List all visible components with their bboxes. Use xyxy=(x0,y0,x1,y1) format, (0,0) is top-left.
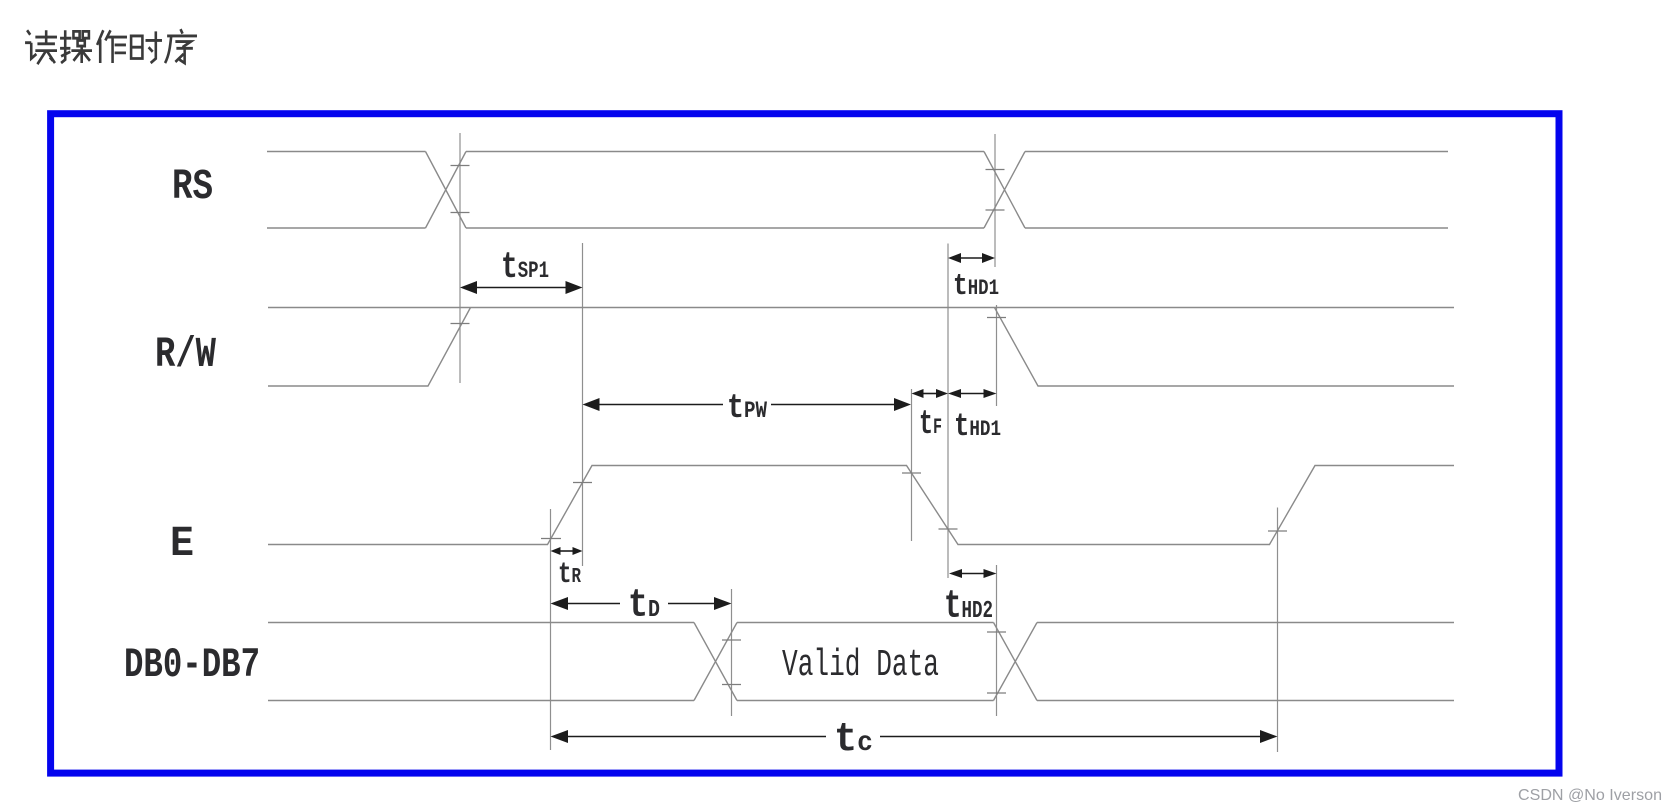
svg-text:RS: RS xyxy=(172,162,213,211)
svg-text:tSP1: tSP1 xyxy=(501,247,549,289)
svg-text:tF: tF xyxy=(919,406,942,444)
svg-text:tPW: tPW xyxy=(727,390,767,428)
svg-text:E: E xyxy=(170,519,194,568)
svg-text:tHD1: tHD1 xyxy=(954,408,1001,445)
svg-text:Valid Data: Valid Data xyxy=(782,644,939,687)
svg-text:tR: tR xyxy=(558,558,581,592)
svg-text:R/W: R/W xyxy=(155,330,216,379)
svg-text:tHD2: tHD2 xyxy=(944,585,993,630)
svg-text:tD: tD xyxy=(628,584,660,629)
svg-text:DB0-DB7: DB0-DB7 xyxy=(124,641,260,689)
svg-text:tHD1: tHD1 xyxy=(953,269,999,304)
svg-text:CSDN @No Iverson: CSDN @No Iverson xyxy=(1518,787,1662,804)
svg-text:tc: tc xyxy=(834,717,873,763)
